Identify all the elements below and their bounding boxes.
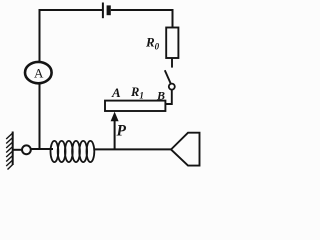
battery negative plate (short thick) xyxy=(107,5,111,15)
switch contact circle xyxy=(169,84,175,90)
slider P arrow head xyxy=(111,112,119,122)
switch blade (open) xyxy=(165,70,171,84)
wall (fixed support) vertical line xyxy=(12,132,14,166)
battery positive plate (long thin) xyxy=(102,3,104,19)
ammeter A xyxy=(25,62,52,83)
wire: pivot circle to coil (junction with ammeter wire) xyxy=(31,148,53,150)
wire: ammeter down to bottom wire xyxy=(39,84,41,151)
horn (speaker) xyxy=(171,133,200,166)
wire: coil to slider junction to horn xyxy=(94,148,171,150)
wire: top horizontal right segment (battery to right corner) xyxy=(111,9,174,11)
svg-text:A: A xyxy=(34,66,44,81)
wire: resistor R0 to switch xyxy=(171,58,173,68)
slider P arrow shaft xyxy=(114,119,116,150)
pivot circle (connection ring) xyxy=(22,145,31,154)
rheostat R1 body xyxy=(105,101,165,111)
svg-text:A: A xyxy=(111,85,121,100)
wire: top horizontal left segment (node to battery) xyxy=(39,9,102,11)
wire: switch contact down to node B of rheostat xyxy=(166,90,172,104)
wall hatching xyxy=(6,133,13,170)
wire: right vertical down to resistor R0 xyxy=(172,9,174,28)
coil (solenoid) xyxy=(51,141,95,162)
wire: wall stub to pivot circle xyxy=(13,149,22,151)
wire: top-left vertical (corner to ammeter) xyxy=(39,9,41,62)
resistor R0 body xyxy=(166,28,178,59)
svg-text:P: P xyxy=(117,123,127,140)
